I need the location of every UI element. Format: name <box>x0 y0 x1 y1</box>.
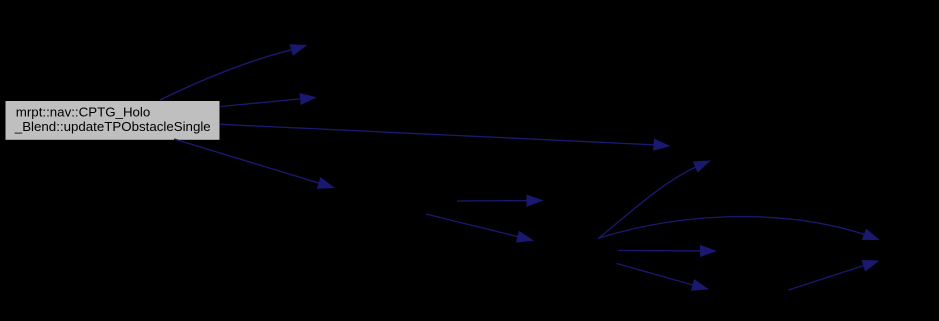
svg-text:_Blend::updateTPObstacleSingle: _Blend::updateTPObstacleSingle <box>14 119 211 134</box>
edge node11->node9b <box>789 261 879 291</box>
edge node5->node6 <box>457 195 542 206</box>
edge main->node2 <box>160 45 306 100</box>
node main: mrpt::nav::CPTG_Holo_Blend::updateTPObstacleSingle <box>6 101 220 140</box>
edge node7->node8 <box>598 161 710 239</box>
edge main->node4 <box>220 124 669 150</box>
edge node5->node7 <box>426 214 533 242</box>
edge node7->node10 <box>618 246 716 257</box>
edge node7->node9 <box>599 217 879 240</box>
edge main->node3 <box>221 94 316 107</box>
svg-text:mrpt::nav::CPTG_Holo: mrpt::nav::CPTG_Holo <box>16 105 151 120</box>
edge main->node5 <box>174 139 334 188</box>
edge node7->node11 <box>617 264 708 291</box>
